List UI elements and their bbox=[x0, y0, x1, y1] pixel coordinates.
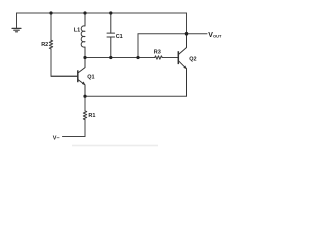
svg-text:OUT: OUT bbox=[213, 34, 222, 39]
wire right drop to Vout node bbox=[186, 13, 188, 34]
inductor L1 bbox=[81, 13, 85, 58]
wire mid rail left bbox=[85, 57, 155, 59]
transistor Q2 bbox=[178, 34, 187, 96]
capacitor C1 bottom lead bbox=[110, 37, 112, 58]
svg-text:R1: R1 bbox=[88, 113, 95, 119]
svg-text:L1: L1 bbox=[74, 27, 80, 33]
node L1 bottom / Q1 collector bbox=[83, 56, 86, 59]
wire R2 bottom to Q1 base bbox=[51, 49, 78, 76]
svg-text:Q2: Q2 bbox=[189, 56, 196, 62]
wire link node B to Vout node bbox=[138, 34, 187, 58]
resistor R1 bbox=[83, 111, 86, 120]
node C1 top bbox=[109, 11, 112, 14]
resistor R2 bbox=[49, 40, 52, 49]
node R2 top bbox=[49, 11, 52, 14]
ground bbox=[12, 28, 21, 31]
node L1 top bbox=[83, 11, 86, 14]
wire R2 top bbox=[50, 13, 52, 40]
wire mid rail right to Q2 base bbox=[162, 57, 178, 59]
resistor R3 bbox=[155, 56, 162, 59]
wire Vout lead bbox=[187, 33, 207, 35]
node link B bbox=[136, 56, 139, 59]
node Q1 emitter / R1 bbox=[83, 95, 86, 98]
node C1 bottom bbox=[109, 56, 112, 59]
svg-text:C1: C1 bbox=[116, 34, 123, 40]
wire ground stem bbox=[16, 13, 18, 28]
svg-text:R3: R3 bbox=[154, 50, 161, 56]
svg-text:R2: R2 bbox=[41, 42, 48, 48]
wire top rail bbox=[17, 12, 187, 14]
transistor Q1 bbox=[51, 58, 85, 97]
node Vout bbox=[185, 32, 189, 36]
cropped caption remnant at bottom edge bbox=[72, 145, 158, 147]
capacitor C1 plates bbox=[107, 33, 115, 37]
svg-text:V–: V– bbox=[53, 136, 60, 142]
svg-text:Q1: Q1 bbox=[87, 74, 94, 80]
wire R1 bottom to V- bbox=[63, 120, 85, 137]
wire R1 top bbox=[84, 96, 86, 111]
wire emitter bus bottom bbox=[85, 69, 187, 96]
capacitor C1 top lead bbox=[110, 13, 112, 33]
